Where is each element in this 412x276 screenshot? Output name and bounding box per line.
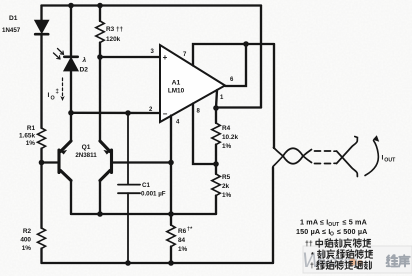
resistor R2 <box>38 228 46 248</box>
pin number labels <box>149 49 234 126</box>
Q1 right base bar <box>110 150 113 173</box>
wire Q1 right base line to pin4 column <box>113 161 172 163</box>
wire R3 to plus-input node <box>99 43 101 57</box>
svg-text:2N3811: 2N3811 <box>75 152 97 159</box>
svg-text:150 µA ≤ I: 150 µA ≤ I <box>296 227 331 236</box>
svg-text:λ: λ <box>82 56 87 64</box>
node R4/R5/pin8 <box>213 161 219 167</box>
svg-text:≤ 5 mA: ≤ 5 mA <box>343 217 367 226</box>
svg-text:O: O <box>330 232 334 238</box>
node pin4 column / base line <box>168 160 174 166</box>
resistor R1 <box>38 128 46 148</box>
wire pin1 node to right column <box>216 106 261 108</box>
svg-text:OUT: OUT <box>384 157 396 163</box>
svg-text:R4: R4 <box>222 125 231 132</box>
svg-text:4: 4 <box>176 120 180 126</box>
wire D1 to R1 <box>40 35 42 128</box>
label D1 1N457 <box>2 15 21 34</box>
node right collector on bottom feedback line <box>97 211 103 217</box>
svg-text:1: 1 <box>220 95 224 101</box>
legend line 1: center-scale trim <box>316 239 371 248</box>
wire Q1 right collector down <box>99 181 101 215</box>
svg-text:1%: 1% <box>222 192 232 199</box>
wire loop right vertical upper <box>273 44 275 148</box>
label R4 10.2k 1% <box>222 125 238 150</box>
svg-text:R2: R2 <box>23 228 32 235</box>
svg-text:Q1: Q1 <box>82 144 91 151</box>
svg-text:R3 ††: R3 †† <box>106 26 123 33</box>
svg-text:I: I <box>48 92 50 99</box>
node pin4 column / collector line <box>168 211 174 217</box>
node top rail / R3 branch <box>97 3 103 9</box>
wire collector feedback line y214 <box>71 213 216 215</box>
svg-text:8: 8 <box>197 109 201 115</box>
node pin7/pin6 <box>243 41 249 47</box>
wire D1 column top <box>40 6 42 21</box>
svg-text:1%: 1% <box>26 140 36 147</box>
spec text 150uA <= Io <= 500uA <box>296 227 367 238</box>
svg-text:R6: R6 <box>178 228 187 235</box>
svg-text:10.2k: 10.2k <box>222 134 238 141</box>
Q1 left emitter arrowhead <box>61 150 68 155</box>
wire Q1 left collector down <box>70 181 72 215</box>
legend line 3: wirewound stable resistor <box>317 261 372 270</box>
svg-text:1%: 1% <box>222 143 232 150</box>
svg-text:‡: ‡ <box>56 89 59 95</box>
svg-text:2k: 2k <box>222 183 230 190</box>
label Q1 2N3811 <box>75 144 97 159</box>
svg-text:††: †† <box>305 241 313 248</box>
wire C1 bottom lead <box>127 193 129 263</box>
label R6 84 1% <box>178 227 193 254</box>
svg-text:120k: 120k <box>106 36 121 43</box>
svg-text:1N457: 1N457 <box>2 27 21 34</box>
label R3 120k <box>106 26 123 43</box>
svg-text:†: † <box>310 263 314 270</box>
svg-text:≤ 500 µA: ≤ 500 µA <box>337 227 367 236</box>
diode D1 <box>35 21 48 35</box>
label Iout <box>382 155 397 164</box>
wire pin 7 up and right <box>193 44 274 66</box>
Iout loop arrow <box>365 141 378 176</box>
annotation Io current arrow <box>62 78 64 98</box>
wire Q1 left base to R1 node <box>42 161 59 163</box>
spec text 1mA <= Iout <= 5mA <box>300 217 367 228</box>
svg-text:1.65k: 1.65k <box>19 133 35 140</box>
svg-text:O: O <box>51 96 55 102</box>
wire loop right vertical lower <box>272 168 274 264</box>
svg-text:*: * <box>311 252 314 259</box>
Q1 left base bar <box>57 150 60 173</box>
svg-text:I: I <box>382 155 384 162</box>
node D2 / inverting input <box>68 110 74 116</box>
svg-text:1%: 1% <box>22 245 32 252</box>
photodiode D2 <box>64 57 77 71</box>
capacitor C1 <box>118 185 140 194</box>
wire top rail to R3 <box>99 6 101 22</box>
wire R1 to R2 <box>40 149 42 229</box>
wire bottom rail <box>42 262 274 264</box>
wire R2 to bottom rail <box>40 249 42 264</box>
svg-text:R5: R5 <box>222 174 231 181</box>
svg-text:D1: D1 <box>9 15 18 22</box>
wire D2 to minus-input node <box>70 71 72 141</box>
svg-text:+: + <box>163 53 168 62</box>
label R2 400 1% <box>20 228 31 252</box>
svg-text:6: 6 <box>230 77 234 83</box>
svg-text:84: 84 <box>178 237 186 244</box>
resistor R5 <box>215 164 217 174</box>
legend line 2: scale-factor trim <box>318 250 373 259</box>
svg-text:3: 3 <box>151 49 155 55</box>
wire pin 8 down and to R4/R5 <box>193 104 216 165</box>
watermark box <box>302 246 412 273</box>
Q1 left collector <box>61 171 72 181</box>
watermark CJK weiku <box>387 255 398 266</box>
wire top rail <box>42 4 262 6</box>
resistor R6 <box>167 225 175 247</box>
twisted pair cable <box>273 137 357 177</box>
label Io <box>48 89 59 102</box>
wire C1 top lead <box>127 113 129 185</box>
node pin1 / R4 <box>213 105 219 111</box>
wire pin 1 lead <box>216 90 217 108</box>
wire pin 6 output to feedback <box>225 44 246 86</box>
label R5 2k 1% <box>222 174 232 199</box>
label C1 0.001uF <box>141 182 166 198</box>
svg-text:1%: 1% <box>178 246 188 253</box>
svg-text:†*: †* <box>187 227 193 233</box>
wire top rail to D2 <box>70 6 72 57</box>
svg-text:−: − <box>163 110 168 119</box>
node R3 bottom / + input <box>97 54 103 60</box>
transistor Q1 dual PNP 2N3811 <box>59 141 112 181</box>
wire right column from top rail <box>260 6 262 108</box>
node top rail / D2 branch <box>68 3 74 9</box>
node C1 column on bottom rail <box>125 260 131 266</box>
svg-text:400: 400 <box>20 237 31 244</box>
op-amp A1 LM10 <box>160 45 225 122</box>
svg-text:D2: D2 <box>80 67 89 74</box>
svg-text:A1: A1 <box>172 80 181 87</box>
node C1 top on - input <box>125 110 131 116</box>
label R1 1.65k 1% <box>19 125 35 147</box>
resistor R4 <box>215 108 217 123</box>
label A1 LM10 and input polarity <box>163 53 185 119</box>
Q1 left emitter <box>61 141 72 152</box>
Q1 right emitter <box>100 141 110 152</box>
svg-text:R1: R1 <box>27 125 36 132</box>
label lambda / D2 <box>80 56 89 74</box>
wire - input line <box>71 112 159 115</box>
light arrows into D2 <box>54 49 64 60</box>
node R1-R2 / Q1 base junction <box>39 160 45 166</box>
wire + input line <box>100 56 159 58</box>
Q1 right emitter arrowhead <box>103 150 110 155</box>
Q1 right collector <box>100 171 110 181</box>
wire pin 4 column <box>170 116 172 226</box>
svg-text:1 mA ≤ I: 1 mA ≤ I <box>300 217 328 226</box>
legend daggers <box>305 241 314 270</box>
svg-text:LM10: LM10 <box>168 88 185 95</box>
resistor R3 <box>96 21 104 43</box>
svg-text:C1: C1 <box>142 182 150 189</box>
svg-text:7: 7 <box>183 52 187 58</box>
node R6 on bottom rail <box>168 260 174 266</box>
svg-text:0.001 µF: 0.001 µF <box>141 191 166 198</box>
wire R3 node down to Q1 right emitter <box>99 57 101 141</box>
